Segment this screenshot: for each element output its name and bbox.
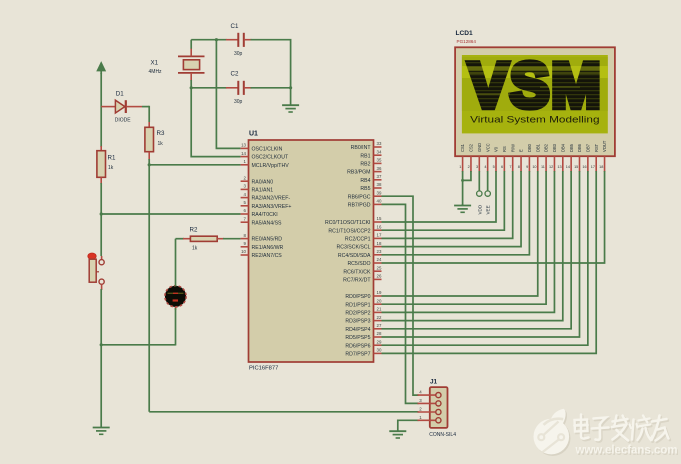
svg-text:R2: R2 [190,226,198,233]
U1 pin 17 RC2/CCP1 [345,233,382,243]
elecfans watermark url text [575,442,679,457]
wire RC2 to LCD pin7 [382,171,513,238]
svg-text:OSC2/CLKOUT: OSC2/CLKOUT [252,155,289,161]
svg-text:10: 10 [241,249,246,254]
svg-text:29: 29 [377,339,382,344]
terminal VEE [485,171,491,215]
svg-text:RB3/PGM: RB3/PGM [347,170,370,176]
svg-text:E: E [519,149,524,152]
U1 pin 14 OSC2/CLKOUT [241,151,289,161]
svg-text:18: 18 [377,241,382,246]
svg-text:33: 33 [377,141,382,146]
resistor R3 [145,106,165,160]
svg-text:2: 2 [244,175,247,180]
wire RD7 to LCD pin17 [382,171,597,353]
svg-text:30p: 30p [234,51,243,57]
svg-text:RB2: RB2 [360,162,370,168]
U1 pin 18 RC3/SCK/SCL [336,241,381,251]
svg-text:VCC: VCC [485,143,490,152]
U1 pin 1 MCLR/Vpp/THV [241,159,290,169]
connector J1 [418,379,457,438]
svg-text:RD3/PSP3: RD3/PSP3 [345,319,370,325]
svg-text:14: 14 [241,151,246,156]
svg-text:2: 2 [419,407,422,412]
svg-text:28: 28 [377,331,382,336]
svg-text:1k: 1k [192,245,198,251]
wire RC3 to LCD pin8 [382,171,522,247]
power terminal arrow [97,63,105,75]
svg-text:39: 39 [377,190,382,195]
svg-text:27: 27 [377,323,382,328]
U1 pin 9 RE1/AN6/WR [241,241,284,251]
svg-text:1k: 1k [108,165,114,171]
wire RD2 to LCD pin12 [382,171,555,312]
svg-text:RD6/PSP6: RD6/PSP6 [345,343,370,349]
U1 pin 38 RB5 [360,182,382,192]
wire button node to U1 RA4 pin 6 [101,213,240,215]
svg-text:RA2/AN2/VREF-: RA2/AN2/VREF- [252,196,291,202]
svg-text:19: 19 [377,290,382,295]
terminal VDD [477,171,483,215]
wire MCLR net to U1 pin 1 [149,164,240,166]
svg-text:RS: RS [502,146,507,152]
wire J1 pin1 to ground [398,420,419,431]
svg-text:R/W: R/W [510,144,515,152]
U1 pin 13 OSC1/CLKIN [241,143,283,153]
svg-text:RA3/AN3/VREF+: RA3/AN3/VREF+ [252,204,292,210]
svg-text:VEE: VEE [486,205,491,214]
svg-text:DB5: DB5 [569,143,574,152]
svg-text:1: 1 [244,159,247,164]
U1 pin 25 RC6/TX/CK [343,265,382,275]
svg-text:8: 8 [518,165,520,169]
svg-text:RC5/SDO: RC5/SDO [347,261,370,267]
svg-text:RC3/SCK/SCL: RC3/SCK/SCL [336,245,370,251]
svg-text:Virtual System Modelling: Virtual System Modelling [470,114,599,124]
svg-text:RD7/PSP7: RD7/PSP7 [345,352,370,358]
svg-text:RD5/PSP5: RD5/PSP5 [345,335,370,341]
U1 pin 33 RB0/INT [351,141,382,151]
svg-text:DB2: DB2 [544,143,549,152]
wire R2 to U1 RE0 pin 8 [223,238,241,240]
svg-text:DB1: DB1 [535,143,540,152]
svg-text:37: 37 [377,174,382,179]
svg-text:MCLR/Vpp/THV: MCLR/Vpp/THV [252,163,290,169]
U1 pin 16 RC1/T1OSI/CCP2 [328,224,382,234]
svg-text:RB7/PGD: RB7/PGD [348,203,371,209]
svg-text:17: 17 [591,165,595,169]
wire LCD pin1 to ground [462,171,464,206]
resistor R2 [183,226,224,251]
wire RD6 to LCD pin16 [382,171,588,345]
svg-text:4: 4 [244,192,247,197]
svg-text:30: 30 [377,348,382,353]
svg-text:GND: GND [477,143,482,152]
svg-text:DB4: DB4 [560,143,565,152]
svg-text:1: 1 [459,165,461,169]
svg-text:21: 21 [377,307,382,312]
svg-text:17: 17 [377,233,382,238]
svg-text:R3: R3 [157,130,165,137]
wire RC0 to LCD pin5 [382,171,497,222]
ground near J1 [389,430,406,438]
U1 pin 19 RD0/PSP0 [345,290,382,300]
elecfans watermark chinese text [576,416,670,442]
svg-text:RE2/AN7/CS: RE2/AN7/CS [252,253,283,259]
op-amp U1 body PIC16F877 [249,131,374,372]
svg-text:3: 3 [476,165,478,169]
U1 pin 26 RC7/RX/DT [343,274,382,284]
U1 pin 2 RA0/AN0 [241,175,274,185]
svg-text:DB3: DB3 [552,143,557,152]
svg-text:RE1/AN6/WR: RE1/AN6/WR [252,245,284,251]
svg-text:VOUT: VOUT [602,140,607,152]
U1 pin 15 RC0/T1OSO/T1CKI [325,216,382,226]
svg-text:5: 5 [493,165,495,169]
svg-text:RB5: RB5 [360,186,370,192]
svg-text:RA0/AN0: RA0/AN0 [252,179,274,185]
svg-text:6: 6 [244,208,247,213]
ground bottom-left [93,345,110,435]
U1 pin 37 RB4 [360,174,382,184]
U1 pin 20 RD1/PSP1 [345,298,382,308]
svg-text:4: 4 [484,165,486,169]
svg-text:RA1/AN1: RA1/AN1 [252,188,274,194]
wire R3 to MCLR junction and down to J1 pin2 net [148,159,151,412]
ground near LCD [454,204,471,212]
resistor R1 [97,146,116,184]
capacitor C2 [226,71,252,106]
svg-text:LCD1: LCD1 [456,30,474,37]
capacitor C1 [226,23,252,57]
svg-text:13: 13 [557,165,561,169]
svg-text:1: 1 [419,415,422,420]
svg-text:8: 8 [244,233,247,238]
wire sounder top to R2 [176,239,185,287]
svg-text:RD0/PSP0: RD0/PSP0 [345,294,370,300]
svg-text:CS2: CS2 [469,143,474,152]
wire RD0 to LCD pin10 [382,171,538,296]
svg-text:RE0/AN5/RD: RE0/AN5/RD [252,237,283,243]
LCD1 pin stubs and numbers [459,156,604,172]
svg-text:9: 9 [526,165,528,169]
svg-text:25: 25 [377,265,382,270]
U1 pin 5 RA3/AN3/VREF+ [241,200,292,210]
LCD1 pin name labels [460,140,607,152]
svg-text:7: 7 [509,165,511,169]
svg-text:36: 36 [377,166,382,171]
svg-text:16: 16 [377,224,382,229]
U1 pin 8 RE0/AN5/RD [241,233,283,243]
U1 pin 30 RD7/PSP7 [345,348,382,358]
svg-text:RB1: RB1 [360,153,370,159]
svg-text:40: 40 [377,199,382,204]
U1 pin 7 RA5/AN4/SS [241,216,282,226]
svg-text:18: 18 [599,165,603,169]
sounder LS1 [165,286,186,310]
U1 pin 27 RD4/PSP4 [345,323,382,333]
U1 pin 24 RC5/SDO [347,257,382,267]
wire OSC1 vertical to U1 pin 13 [216,40,240,149]
svg-text:C2: C2 [231,71,239,78]
svg-text:26: 26 [377,274,382,279]
svg-text:RC4/SDI/SDA: RC4/SDI/SDA [338,253,371,259]
svg-text:DB6: DB6 [577,143,582,152]
svg-text:www.elecfans.com: www.elecfans.com [575,442,678,456]
wire RD3 to LCD pin13 [382,171,563,321]
svg-text:22: 22 [377,315,382,320]
svg-text:RB0/INT: RB0/INT [351,145,372,151]
svg-text:RD1/PSP1: RD1/PSP1 [345,302,370,308]
diode D1 [101,91,149,124]
svg-text:15: 15 [377,216,382,221]
wire RC1 to LCD pin6 [382,171,505,230]
svg-text:CS1: CS1 [460,143,465,152]
svg-text:34: 34 [377,149,382,154]
ground top near C1 C2 [282,88,299,112]
U1 pin 40 RB7/PGD [348,199,382,209]
LCD1 labels [456,30,477,44]
wire RC4 to LCD pin9 [382,171,530,255]
svg-text:V0: V0 [494,146,499,152]
wire RB6 to J1 pin4 [382,196,419,395]
svg-text:2: 2 [468,165,470,169]
push button SW1 [88,253,104,290]
svg-text:38: 38 [377,182,382,187]
svg-text:23: 23 [377,249,382,254]
wire ground net to sounder bottom [100,343,176,346]
svg-text:RC1/T1OSI/CCP2: RC1/T1OSI/CCP2 [328,228,370,234]
svg-text:20: 20 [377,298,382,303]
svg-text:4MHz: 4MHz [149,69,163,75]
svg-text:U1: U1 [249,131,258,138]
U1 pin 10 RE2/AN7/CS [241,249,283,259]
wire crystal bottom to OSC2 and C2 [190,80,241,157]
U1 pin 6 RA4/T0CKI [241,208,278,218]
svg-text:12: 12 [549,165,553,169]
U1 pin 28 RD5/PSP5 [345,331,382,341]
svg-text:RD4/PSP4: RD4/PSP4 [345,327,370,333]
wire RD4 to LCD pin14 [382,171,572,329]
svg-text:24: 24 [377,257,382,262]
svg-text:RC0/T1OSO/T1CKI: RC0/T1OSO/T1CKI [325,220,371,226]
crystal X1 [149,49,205,82]
svg-text:30p: 30p [234,99,243,105]
svg-text:X1: X1 [151,60,159,67]
wire RC5 to LCD pin18 [382,171,605,263]
svg-text:RC6/TX/CK: RC6/TX/CK [343,269,371,275]
U1 pin 34 RB1 [360,149,382,159]
svg-text:15: 15 [574,165,578,169]
wire RD1 to LCD pin11 [382,171,547,304]
svg-text:3: 3 [244,184,247,189]
svg-text:DIODE: DIODE [115,118,132,124]
wire button to ground [100,289,102,346]
svg-text:RD2/PSP2: RD2/PSP2 [345,311,370,317]
svg-text:10: 10 [532,165,536,169]
wire RD5 to LCD pin15 [382,171,580,337]
wire C1 to ground rail corner [251,40,291,89]
svg-text:OSC1/CLKIN: OSC1/CLKIN [252,147,283,153]
svg-text:1k: 1k [158,141,164,147]
svg-text:CONN-SIL4: CONN-SIL4 [429,432,456,438]
svg-text:D1: D1 [116,91,124,98]
svg-text:RA4/T0CKI: RA4/T0CKI [252,212,278,218]
svg-text:RST: RST [594,143,599,152]
wire power to D1/R1 node [100,73,102,147]
svg-text:RA5/AN4/SS: RA5/AN4/SS [252,220,283,226]
svg-text:4: 4 [419,390,422,395]
svg-text:PIC16F877: PIC16F877 [249,365,278,371]
svg-text:DB7: DB7 [586,143,591,152]
wire RB7 to J1 pin3 [382,204,419,403]
U1 pin 36 RB3/PGM [347,166,382,176]
svg-text:11: 11 [541,165,545,169]
svg-text:C1: C1 [231,23,239,30]
svg-text:RC7/RX/DT: RC7/RX/DT [343,278,371,284]
svg-text:13: 13 [241,143,246,148]
wire sounder bottom to ground net [175,308,177,346]
svg-text:7: 7 [244,216,247,221]
svg-text:VDD: VDD [477,204,482,214]
svg-text:35: 35 [377,158,382,163]
svg-text:RB4: RB4 [360,178,370,184]
svg-text:RB6/PGC: RB6/PGC [348,194,371,200]
wire MCLR net to J1 pin2 [149,411,418,413]
U1 pin 23 RC4/SDI/SDA [338,249,382,259]
U1 pin 3 RA1/AN1 [241,184,274,194]
wire R1 to button [100,183,103,256]
wire C2 to ground [251,86,293,89]
svg-text:14: 14 [566,165,570,169]
U1 pin 21 RD2/PSP2 [345,307,382,317]
LCD1 body [455,47,615,156]
svg-text:6: 6 [501,165,503,169]
svg-text:J1: J1 [430,379,438,386]
svg-text:R1: R1 [108,155,116,162]
U1 pin 39 RB6/PGC [348,190,382,200]
elecfans watermark logo [534,409,571,456]
U1 pin 22 RD3/PSP3 [345,315,382,325]
U1 pin 29 RD6/PSP6 [345,339,382,349]
svg-text:DB0: DB0 [527,143,532,152]
U1 pin 35 RB2 [360,158,382,168]
svg-text:16: 16 [582,165,586,169]
wire LCD pin2 to ground net [461,171,471,182]
svg-text:3: 3 [419,398,422,403]
svg-text:9: 9 [244,241,247,246]
U1 pin 4 RA2/AN2/VREF- [241,192,291,202]
svg-text:RC2/CCP1: RC2/CCP1 [345,237,371,243]
svg-text:5: 5 [244,200,247,205]
wire OSC1 net top rail [191,38,226,49]
svg-text:PG12864: PG12864 [457,39,477,44]
